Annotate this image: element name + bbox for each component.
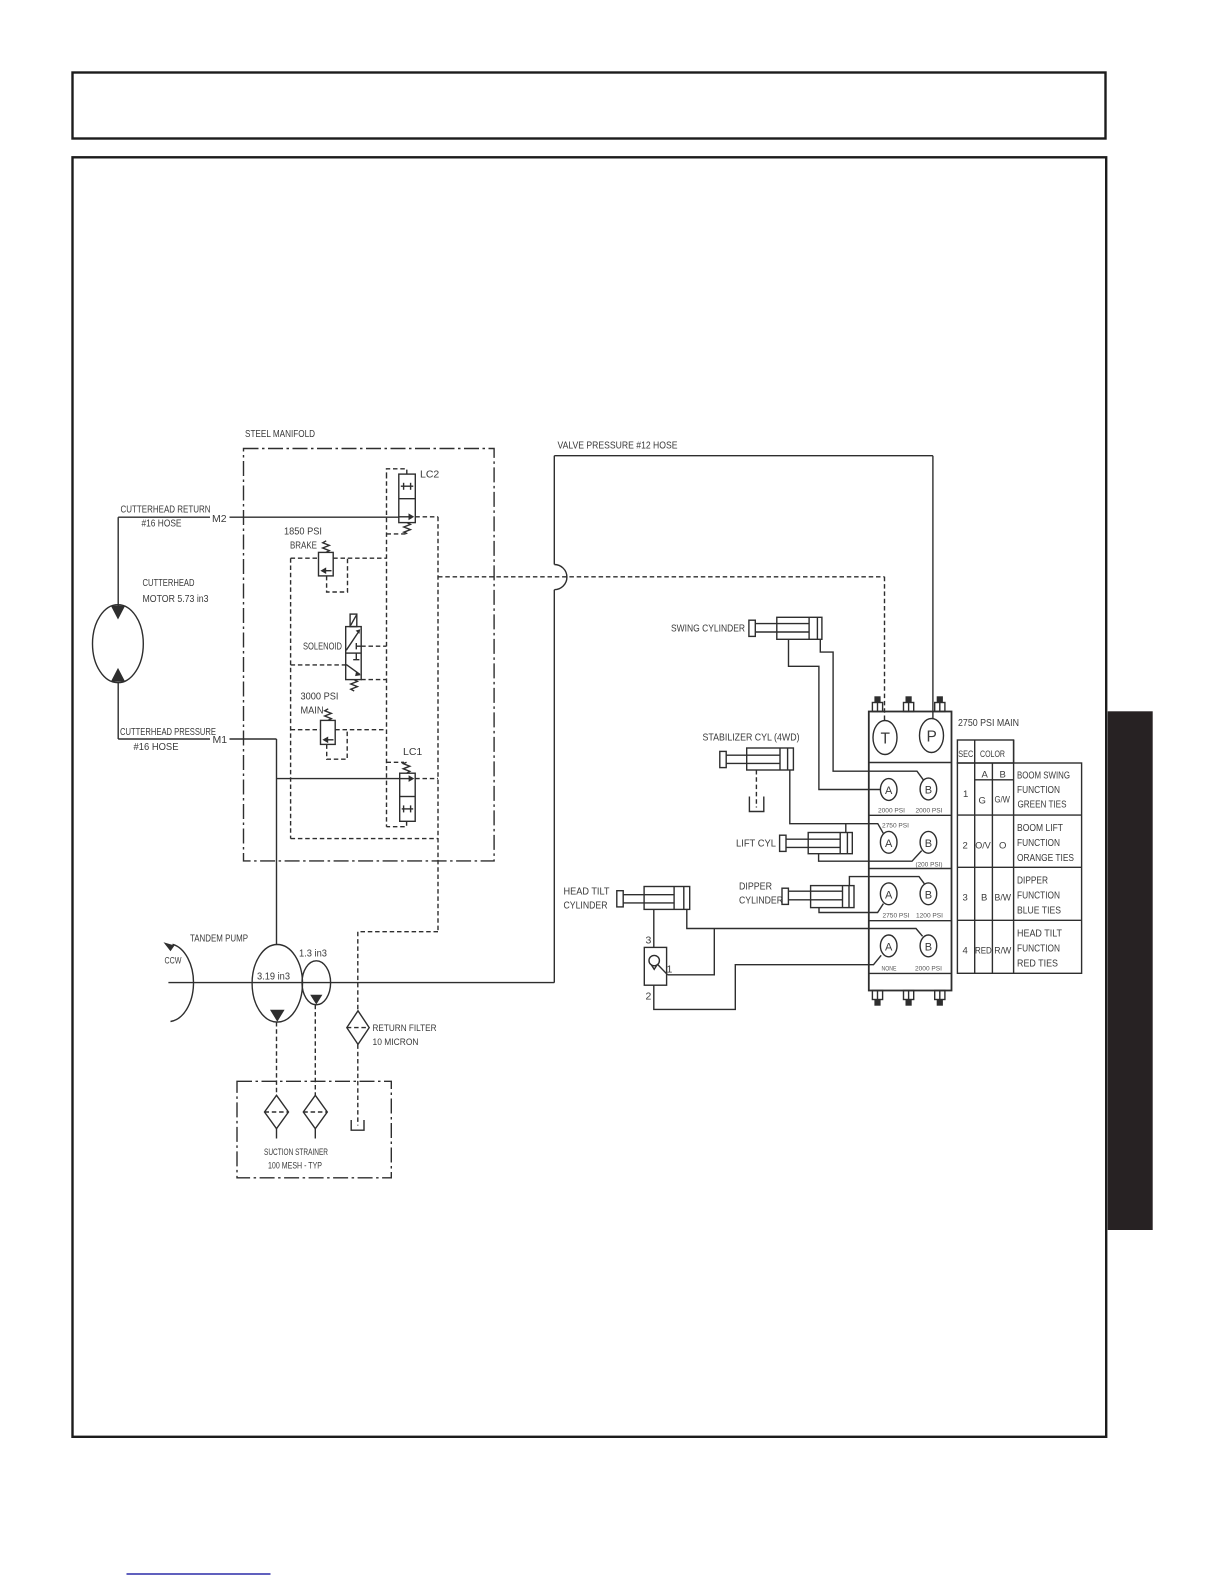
control valve bank body (869, 712, 952, 991)
stabilizer cylinder (720, 748, 794, 770)
relief valve 3000 PSI MAIN (321, 720, 336, 744)
wire selector port 2 to A4 (654, 955, 881, 1009)
svg-text:1.3 in3: 1.3 in3 (299, 948, 327, 960)
port B1 (920, 778, 937, 800)
svg-text:VALVE PRESSURE #12 HOSE: VALVE PRESSURE #12 HOSE (558, 440, 678, 452)
svg-text:SWING CYLINDER: SWING CYLINDER (671, 623, 745, 635)
table row 3 : sec 3, B, B/W, DIPPER FUNCTION BLUE TIES (963, 875, 1062, 917)
svg-text:T: T (881, 731, 891, 748)
wire solenoid right upper port (dashed) (361, 645, 386, 647)
rotation arrow CCW (164, 942, 194, 1021)
svg-text:STABILIZER CYL (4WD): STABILIZER CYL (4WD) (703, 732, 800, 744)
svg-text:LC2: LC2 (420, 469, 439, 481)
svg-text:SUCTION STRAINER: SUCTION STRAINER (264, 1147, 328, 1157)
pilot loop main relief (327, 730, 348, 760)
wire solenoid left port (dashed) (291, 664, 346, 666)
svg-text:G: G (979, 796, 986, 807)
wire tank column to return filter (358, 932, 438, 1011)
svg-text:B: B (925, 889, 932, 901)
svg-text:LC1: LC1 (403, 746, 422, 758)
svg-text:RETURN FILTER: RETURN FILTER (373, 1023, 437, 1034)
title block frame (empty) (73, 73, 1106, 139)
svg-text:B: B (925, 838, 932, 850)
port T (873, 721, 897, 755)
suction strainer 1 (265, 1095, 289, 1138)
svg-text:HEAD TILT: HEAD TILT (1017, 928, 1062, 940)
pilot loop brake valve (327, 558, 348, 592)
svg-text:COLOR: COLOR (980, 749, 1005, 760)
wire M1 down to pump (276, 739, 278, 945)
svg-text:A: A (885, 941, 893, 953)
svg-text:B: B (925, 941, 932, 953)
wire valve pressure right riser to P (932, 456, 934, 719)
wire motor left vertical (M1 side) (117, 682, 119, 739)
svg-text:DIPPER: DIPPER (1017, 875, 1048, 887)
wire tank column vertical (dashed) (437, 517, 439, 932)
wire LC1 outlet to tank column (dashed) (415, 778, 438, 780)
svg-text:FUNCTION: FUNCTION (1017, 890, 1060, 902)
svg-text:CCW: CCW (165, 956, 183, 966)
svg-text:A: A (885, 889, 893, 901)
svg-text:2: 2 (963, 841, 968, 852)
svg-text:100 MESH - TYP: 100 MESH - TYP (268, 1161, 322, 1171)
svg-text:LIFT CYL: LIFT CYL (736, 838, 776, 850)
svg-text:4: 4 (963, 946, 968, 957)
svg-text:BRAKE: BRAKE (290, 540, 317, 552)
svg-text:10 MICRON: 10 MICRON (373, 1037, 419, 1048)
svg-text:1: 1 (667, 964, 673, 976)
pump stage 3.19 in3 (252, 945, 302, 1023)
selector valve (head tilt) (644, 947, 667, 985)
tank symbol (stabilizer) (749, 797, 763, 812)
spring main relief (325, 709, 332, 721)
svg-text:TANDEM PUMP: TANDEM PUMP (190, 933, 248, 945)
svg-text:O/V: O/V (975, 841, 991, 852)
wire selector port 1 to B4 net (668, 929, 715, 975)
wire manifold internal left rail (dashed) (290, 558, 292, 838)
counterbalance valve LC2 (399, 474, 416, 522)
pilot line LC1 (dashed) (387, 761, 405, 763)
svg-text:#16 HOSE: #16 HOSE (142, 518, 182, 530)
svg-text:SOLENOID: SOLENOID (303, 641, 342, 653)
svg-text:GREEN TIES: GREEN TIES (1018, 799, 1067, 811)
svg-text:FUNCTION: FUNCTION (1017, 837, 1060, 849)
svg-text:3000 PSI: 3000 PSI (301, 691, 339, 703)
wire main relief outlet (dashed) (335, 729, 386, 731)
pilot line LC2 (dashed loop) (387, 469, 407, 474)
svg-text:BLUE TIES: BLUE TIES (1017, 905, 1061, 917)
svg-text:B/W: B/W (995, 893, 1012, 904)
wire lift cyl top stub to A2 line (845, 824, 847, 833)
node M2 : CUTTERHEAD RETURN #16 HOSE (121, 504, 227, 530)
svg-text:2000 PSI: 2000 PSI (916, 808, 943, 815)
wire head tilt cap port to B4 (687, 909, 923, 936)
svg-text:A: A (885, 785, 893, 797)
solenoid valve (346, 614, 362, 680)
svg-text:CYLINDER: CYLINDER (564, 900, 608, 912)
svg-text:B: B (925, 785, 932, 797)
spring solenoid (351, 680, 358, 691)
port B4 (920, 935, 937, 957)
tie bolt bottom 3 (935, 991, 945, 1006)
table row 1 : sec 1, G, G/W, BOOM SWING FUNCTION GREEN TIES (963, 770, 1070, 811)
tie bolt top 2 (904, 696, 914, 711)
wire main relief inlet (dashed) (291, 729, 321, 731)
lift cylinder (780, 833, 853, 854)
drawing sheet frame (73, 157, 1107, 1437)
wire head tilt rod port to selector port 3 (653, 909, 655, 947)
suction strainer 2 (303, 1095, 327, 1138)
wire drain net vertical (dashed) (386, 474, 388, 827)
wire tank return line manifold to valve T (dashed) (438, 576, 885, 578)
svg-text:HEAD TILT: HEAD TILT (564, 886, 610, 898)
return filter 10 micron (347, 1011, 369, 1045)
tie bolt bottom 1 (872, 991, 882, 1006)
svg-text:2: 2 (646, 991, 652, 1003)
svg-text:FUNCTION: FUNCTION (1017, 784, 1060, 796)
wire motor left vertical (M2 side) (117, 517, 119, 606)
wire solenoid right lower port (dashed) (361, 679, 386, 681)
wire manifold internal bottom rail (dashed) (291, 838, 438, 840)
svg-text:3: 3 (646, 935, 652, 947)
svg-text:STEEL MANIFOLD: STEEL MANIFOLD (245, 428, 315, 440)
svg-text:NONE: NONE (882, 966, 897, 973)
relief valve 1850 PSI BRAKE (319, 552, 334, 576)
svg-text:M2: M2 (212, 513, 227, 525)
svg-text:2750 PSI: 2750 PSI (882, 823, 909, 830)
svg-text:3.19 in3: 3.19 in3 (257, 971, 290, 983)
port B2 (920, 831, 937, 853)
svg-text:(200 PSI): (200 PSI) (916, 862, 943, 869)
wire brake inlet (dashed) (291, 557, 319, 559)
tie bolt top 1 (872, 696, 882, 711)
svg-text:MOTOR 5.73 in3: MOTOR 5.73 in3 (143, 593, 209, 605)
wire M2 horizontal (118, 516, 210, 518)
svg-text:3: 3 (963, 893, 968, 904)
table row 4 : sec 4, RED, R/W, HEAD TILT FUNCTION RED TIES (963, 928, 1063, 970)
wire T riser (dashed) (884, 577, 886, 722)
tie bolt top 3 (935, 696, 945, 711)
tie bolt bottom 2 (904, 991, 914, 1006)
svg-text:2750 PSI: 2750 PSI (883, 913, 910, 920)
wire stabilizer drain to tank (dashed) (755, 770, 757, 808)
table row 2 : sec 2, O/V, O, BOOM LIFT FUNCTION ORANGE TIES (963, 822, 1075, 864)
port A1 (880, 779, 897, 801)
wire brake outlet (dashed) (333, 557, 386, 559)
steel manifold enclosure (dash-dot) (244, 449, 495, 861)
pump stage 1.3 in3 (302, 961, 331, 1005)
svg-text:O: O (999, 841, 1006, 852)
wire dipper cap port to B3 (849, 877, 924, 886)
svg-text:#16 HOSE: #16 HOSE (134, 741, 179, 753)
wire pump 1 suction (dashed) (276, 1022, 278, 1095)
wire M1 horizontal (118, 738, 210, 740)
svg-text:MAIN: MAIN (301, 705, 324, 717)
counterbalance valve LC1 (400, 773, 416, 821)
port A2 (880, 831, 897, 853)
svg-text:1: 1 (963, 789, 968, 800)
wire M1 branch to LC1 (277, 778, 400, 780)
svg-text:B: B (1000, 770, 1006, 781)
wiring color table (957, 740, 1081, 973)
svg-text:CUTTERHEAD: CUTTERHEAD (143, 577, 195, 589)
svg-text:2750 PSI MAIN: 2750 PSI MAIN (958, 717, 1019, 729)
footer link line (127, 1573, 271, 1575)
svg-text:BOOM SWING: BOOM SWING (1017, 770, 1070, 782)
svg-text:CUTTERHEAD RETURN: CUTTERHEAD RETURN (121, 504, 211, 516)
svg-text:B: B (981, 893, 987, 904)
wire valve pressure top run (554, 455, 933, 457)
svg-text:2000 PSI: 2000 PSI (878, 808, 905, 815)
port A4 (880, 935, 897, 957)
svg-text:ORANGE TIES: ORANGE TIES (1017, 852, 1074, 864)
wire stabilizer cap port to A2 (790, 770, 884, 834)
port A3 (880, 883, 897, 905)
black page tab (right margin) (1108, 711, 1153, 1230)
svg-text:R/W: R/W (994, 946, 1011, 957)
wire swing rod port to A1 (789, 639, 881, 789)
spring LC2 (404, 523, 411, 534)
svg-text:2000 PSI: 2000 PSI (915, 966, 942, 973)
svg-text:RED: RED (975, 946, 992, 957)
wire LC2 spring to drain net (387, 533, 408, 535)
spring brake valve (323, 541, 330, 553)
head tilt cylinder (617, 887, 690, 910)
wire lift rod port to B2 (819, 851, 922, 862)
svg-text:1850 PSI: 1850 PSI (284, 526, 322, 538)
dipper cylinder (782, 886, 854, 908)
swing cylinder (749, 617, 822, 639)
port P (920, 719, 944, 753)
wire LC1 bottom port to drain net (387, 821, 407, 826)
svg-text:RED TIES: RED TIES (1017, 958, 1058, 970)
svg-text:M1: M1 (213, 734, 228, 746)
svg-text:SEC: SEC (958, 749, 973, 760)
spring LC1 (403, 762, 410, 773)
svg-text:CYLINDER: CYLINDER (739, 895, 783, 907)
svg-text:CUTTERHEAD PRESSURE: CUTTERHEAD PRESSURE (120, 726, 216, 738)
wire pump 2 suction (dashed) (314, 1005, 316, 1096)
pump supply line to valve (168, 982, 554, 984)
node M1 : CUTTERHEAD PRESSURE #16 HOSE (120, 726, 227, 753)
wire dipper rod port to A3 (819, 904, 883, 913)
wire LC2 outlet to tank column (415, 516, 438, 518)
svg-text:FUNCTION: FUNCTION (1017, 943, 1060, 955)
cutterhead motor (5.73 in3) (93, 605, 144, 683)
svg-text:A: A (982, 770, 989, 781)
port B3 (920, 883, 937, 905)
wire swing cap port to B1 (820, 639, 923, 780)
svg-text:P: P (927, 729, 937, 746)
reservoir enclosure (dash-dot) (237, 1081, 391, 1178)
wire return filter to tank (dashed) (357, 1044, 359, 1125)
svg-text:BOOM LIFT: BOOM LIFT (1017, 822, 1063, 834)
svg-text:G/W: G/W (995, 795, 1011, 806)
wire valve pressure left riser with hop (554, 456, 567, 983)
svg-text:1200 PSI: 1200 PSI (916, 913, 943, 920)
svg-text:DIPPER: DIPPER (739, 881, 772, 893)
svg-text:A: A (885, 838, 893, 850)
tank symbol (return) (351, 1120, 364, 1130)
